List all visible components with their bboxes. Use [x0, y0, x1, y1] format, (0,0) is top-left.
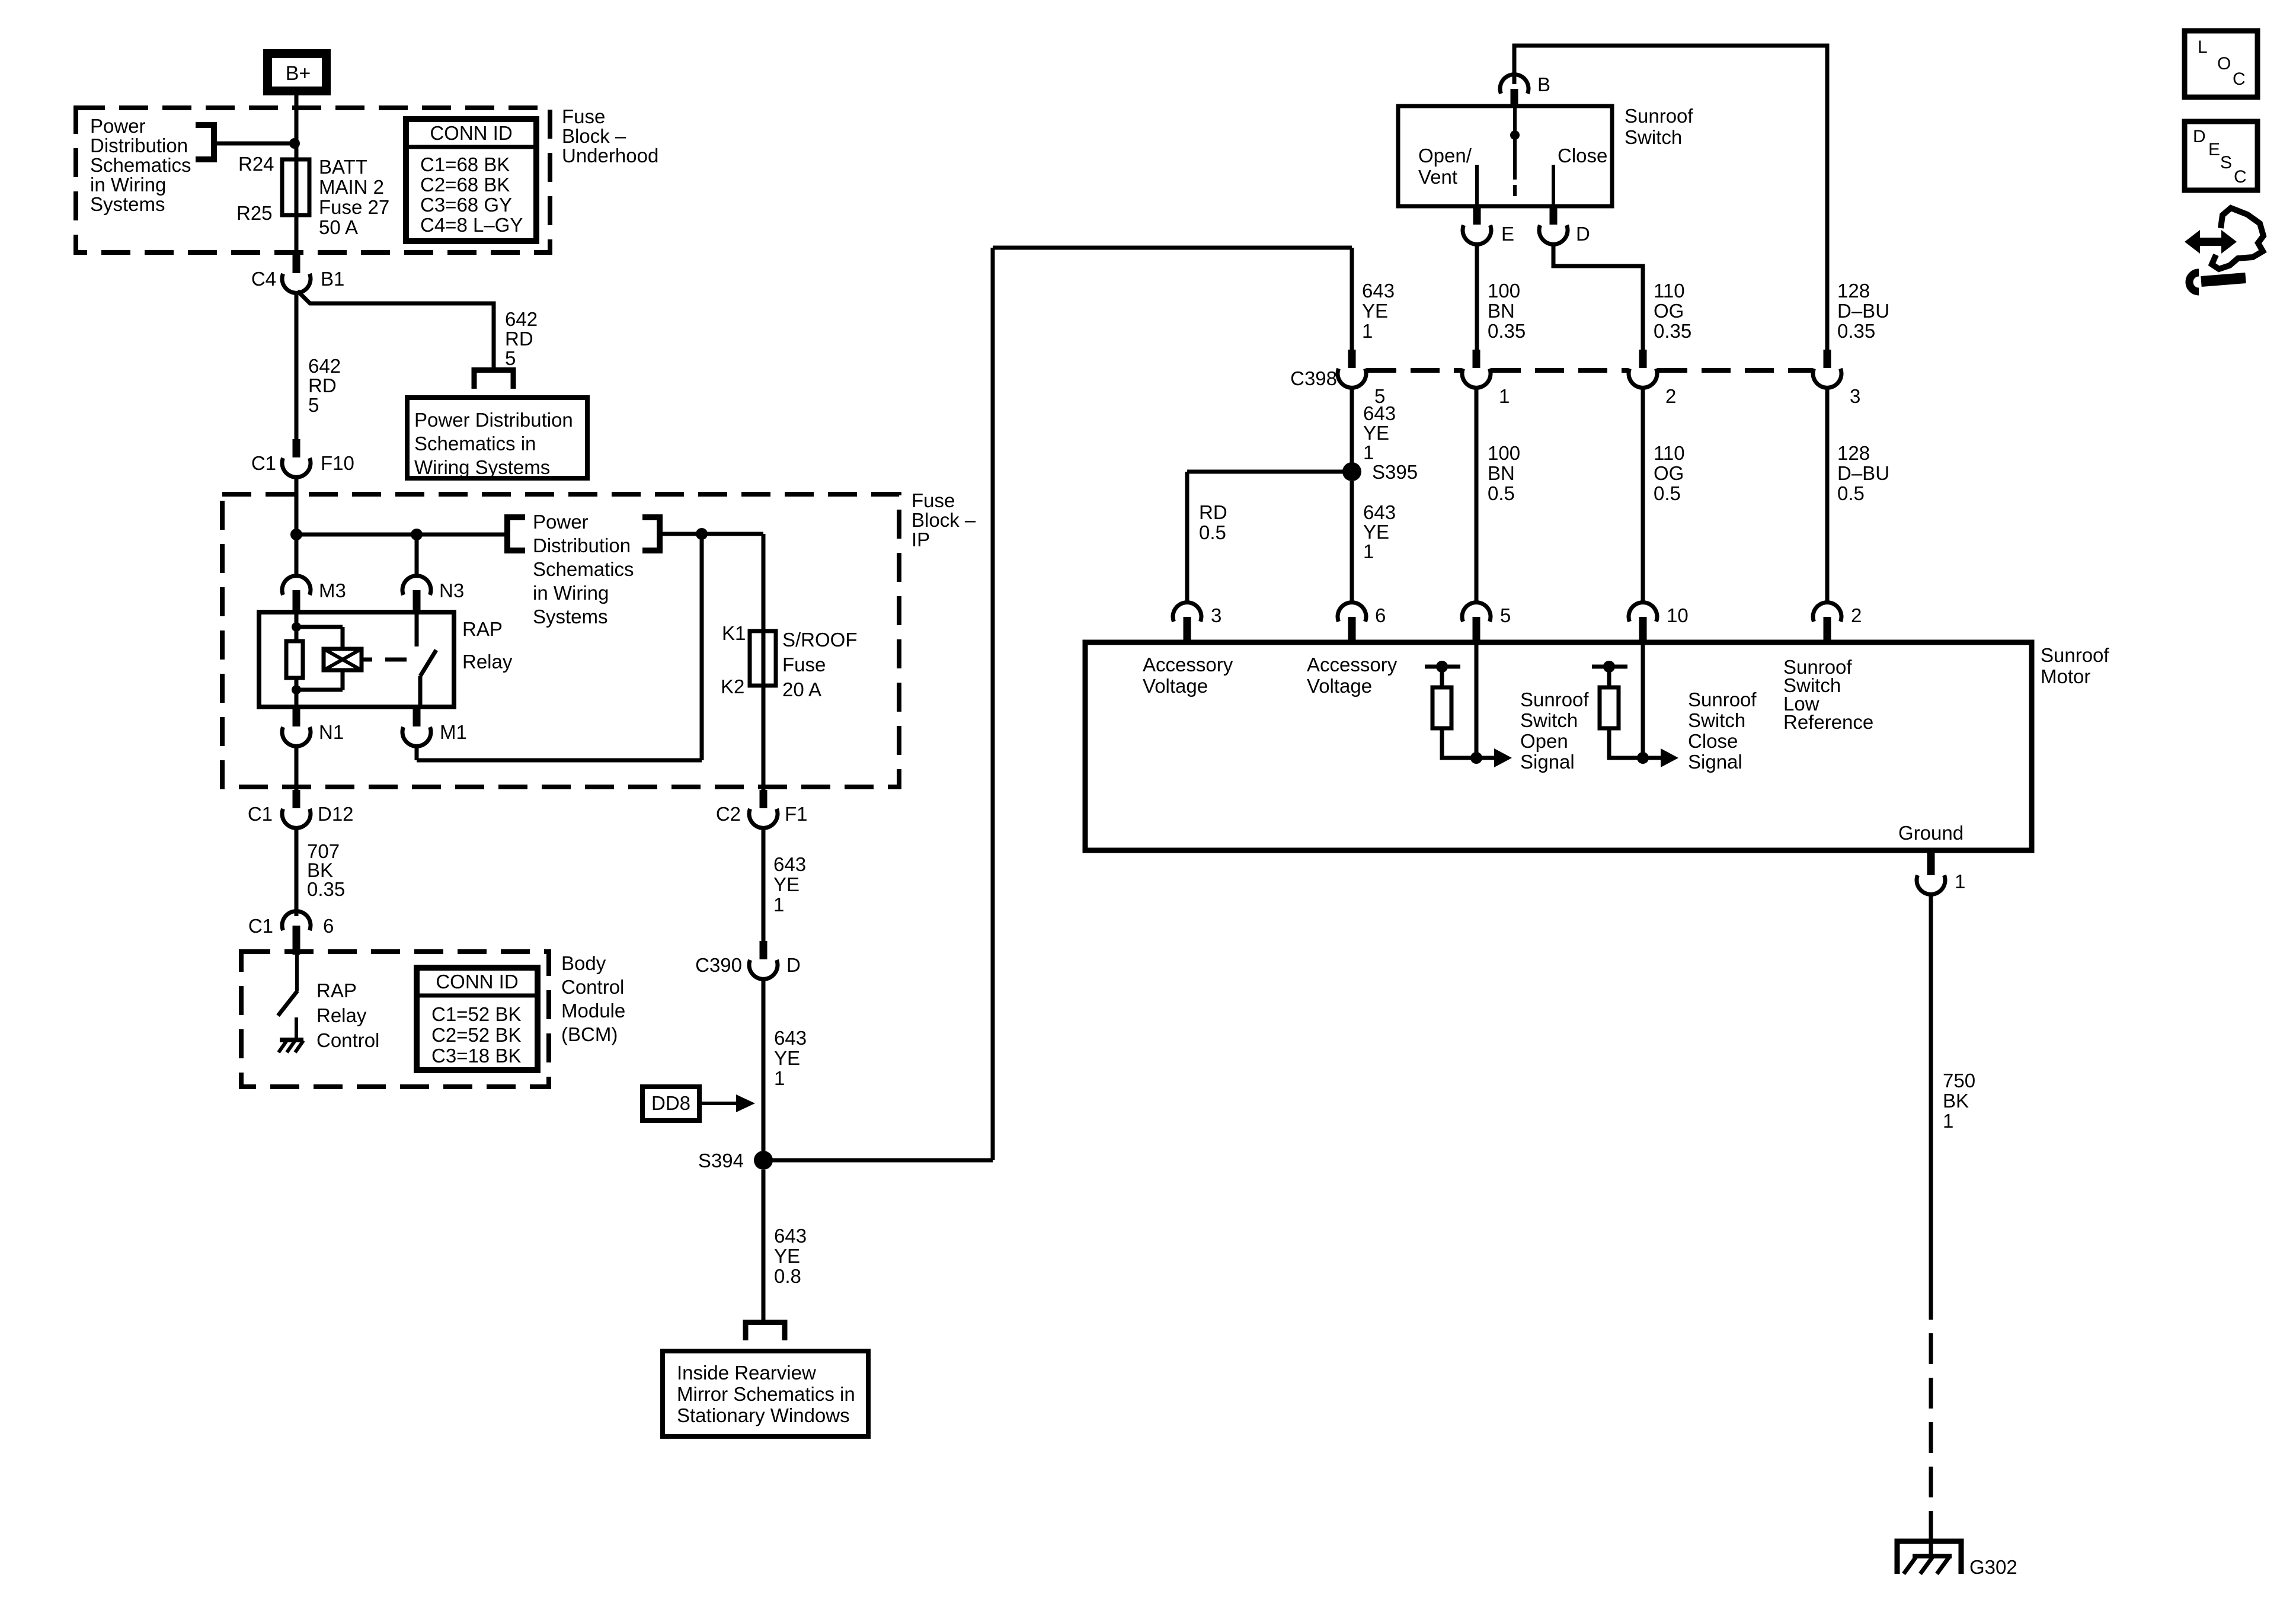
svg-text:2: 2: [1851, 604, 1862, 626]
label 642 RD 5 (branch): [505, 308, 538, 369]
label 707 BK 0.35: [307, 840, 345, 900]
wire branch from B1 to receptacle: [298, 291, 494, 369]
wire 750 BK 1 solid: [1929, 893, 1933, 1289]
svg-text:OG: OG: [1654, 462, 1684, 484]
svg-text:1: 1: [774, 1067, 785, 1089]
table CONN ID BCM: [417, 968, 538, 1070]
label Fuse Block - IP: [912, 489, 976, 550]
svg-text:0.35: 0.35: [1488, 320, 1526, 342]
wire pin D inside switch: [1552, 165, 1555, 206]
wire close signal internal: [1641, 642, 1645, 758]
label RD 0.5: [1199, 501, 1227, 543]
connector motor pin 6: [1338, 603, 1386, 642]
svg-text:Switch: Switch: [1520, 709, 1578, 731]
node junction at B+ feed: [289, 138, 300, 149]
label S/ROOF Fuse 20 A: [782, 629, 858, 700]
label R25: [236, 202, 273, 224]
body control module dashed outline: [241, 952, 549, 1087]
wire N3 drop: [415, 534, 419, 576]
svg-text:E: E: [2208, 140, 2220, 159]
svg-text:CONN ID: CONN ID: [436, 971, 518, 993]
svg-text:C2=68 BK: C2=68 BK: [420, 174, 510, 196]
svg-text:Schematics: Schematics: [90, 154, 191, 176]
svg-text:110: 110: [1654, 442, 1685, 464]
svg-text:Sunroof: Sunroof: [2041, 644, 2109, 666]
label R24: [238, 153, 274, 175]
svg-text:Voltage: Voltage: [1143, 675, 1208, 697]
svg-text:643: 643: [774, 1027, 807, 1049]
svg-text:S/ROOF: S/ROOF: [782, 629, 858, 651]
label Sunroof Switch: [1625, 105, 1693, 148]
connector motor pin 1 ground: [1917, 850, 1965, 894]
label Sunroof Switch Low Reference: [1783, 656, 1873, 733]
icon service arrows and wrench: [2185, 208, 2263, 292]
wire coil actuating dash link: [362, 658, 407, 662]
svg-text:D12: D12: [318, 803, 354, 825]
svg-text:RD: RD: [1199, 501, 1227, 523]
connector DD8 reference box: [642, 1087, 699, 1121]
fuse S/ROOF 20A: [750, 631, 776, 686]
svg-text:643: 643: [774, 1225, 807, 1247]
svg-text:Schematics: Schematics: [533, 558, 634, 580]
svg-text:RAP: RAP: [462, 618, 503, 640]
svg-text:0.5: 0.5: [1199, 521, 1226, 543]
svg-text:DD8: DD8: [651, 1092, 690, 1114]
svg-text:O: O: [2217, 54, 2231, 73]
connector C4 / B1: [251, 255, 345, 293]
connector M1: [402, 708, 467, 746]
connector E: [1463, 206, 1514, 245]
svg-text:G302: G302: [1969, 1556, 2017, 1578]
connector C398 pin 5: [1338, 350, 1385, 407]
svg-text:Block –: Block –: [912, 509, 976, 531]
svg-text:MAIN 2: MAIN 2: [319, 176, 384, 198]
svg-text:0.35: 0.35: [1837, 320, 1875, 342]
node open signal junction: [1470, 752, 1482, 764]
label Open/Vent: [1418, 145, 1472, 188]
wire M3 drop: [295, 534, 299, 576]
svg-text:1: 1: [1363, 540, 1374, 562]
arrow close signal: [1643, 748, 1678, 767]
svg-text:Inside Rearview: Inside Rearview: [677, 1362, 816, 1384]
connector motor pin 3: [1173, 603, 1221, 642]
relay RAP outline: [259, 612, 454, 707]
connector C390 / D: [695, 941, 801, 979]
box Power Distribution Schematics in Wiring Systems: [407, 398, 587, 478]
svg-text:OG: OG: [1654, 300, 1684, 322]
svg-text:Body: Body: [561, 952, 606, 974]
svg-text:Schematics in: Schematics in: [414, 433, 536, 454]
wire open signal internal: [1475, 642, 1479, 758]
wire 707 BK: [295, 827, 299, 903]
wire B+ to fuse: [295, 95, 299, 159]
svg-text:R24: R24: [238, 153, 274, 175]
svg-text:CONN ID: CONN ID: [430, 122, 512, 144]
sunroof switch outline: [1398, 106, 1612, 206]
svg-text:Power: Power: [90, 115, 146, 137]
label 642 RD 5 (main): [308, 355, 341, 416]
svg-text:0.8: 0.8: [774, 1265, 801, 1287]
sunroof motor outline: [1085, 642, 2032, 850]
svg-text:1: 1: [1955, 870, 1965, 892]
svg-text:Wiring Systems: Wiring Systems: [414, 456, 550, 478]
splice S395: [1342, 461, 1418, 483]
svg-text:YE: YE: [773, 873, 800, 895]
svg-text:Power: Power: [533, 511, 589, 533]
label 100 BN 0.5: [1488, 442, 1520, 504]
connector C1 / 6: [248, 911, 334, 955]
svg-text:Sunroof: Sunroof: [1520, 689, 1589, 710]
box Inside Rearview Mirror Schematics: [663, 1351, 868, 1436]
svg-text:F10: F10: [321, 452, 354, 474]
switch RAP relay control blade: [278, 991, 298, 1016]
svg-text:Distribution: Distribution: [90, 135, 188, 156]
receptacle to mirror schematics: [746, 1323, 785, 1341]
node junction bus at main feed: [290, 529, 302, 540]
svg-text:S395: S395: [1372, 461, 1418, 483]
svg-text:RD: RD: [505, 328, 533, 350]
svg-text:Control: Control: [561, 976, 624, 998]
svg-text:C1=68 BK: C1=68 BK: [420, 153, 510, 175]
label 110 OG 0.35: [1654, 280, 1691, 342]
connector motor pin 10: [1629, 603, 1689, 642]
fuse block underhood dashed outline: [76, 108, 550, 252]
svg-text:1: 1: [1363, 441, 1374, 463]
power symbol B+ battery feed: [268, 54, 327, 91]
connector motor pin 2: [1813, 603, 1862, 642]
wire S394 branch right: [763, 1158, 993, 1163]
svg-text:Fuse: Fuse: [782, 654, 826, 676]
svg-text:C3=68 GY: C3=68 GY: [420, 194, 512, 216]
connector N3: [402, 576, 464, 612]
label Ground: [1898, 822, 1964, 844]
switch relay contact blade: [420, 650, 436, 707]
wire bracket to S/ROOF fuse: [660, 532, 763, 536]
off-page bracket right (power distribution IP): [642, 517, 660, 550]
label 643 YE 0.8: [774, 1225, 807, 1287]
svg-text:100: 100: [1488, 442, 1520, 464]
svg-text:Motor: Motor: [2041, 665, 2090, 687]
svg-text:Distribution: Distribution: [533, 534, 631, 556]
svg-text:C398: C398: [1290, 367, 1337, 389]
wire N1 to C1 D12: [295, 745, 299, 791]
connector C398 pin 1: [1462, 350, 1510, 407]
svg-text:0.35: 0.35: [307, 878, 345, 900]
svg-text:YE: YE: [1363, 422, 1389, 444]
svg-text:6: 6: [323, 915, 334, 937]
svg-text:Power Distribution: Power Distribution: [414, 409, 573, 431]
svg-text:D–BU: D–BU: [1837, 462, 1889, 484]
connector M3: [282, 576, 346, 612]
wire fuse to connector C4: [295, 215, 299, 255]
svg-text:YE: YE: [1363, 521, 1389, 543]
svg-text:C1: C1: [248, 803, 273, 825]
connector C1 / F10: [251, 439, 354, 477]
svg-text:100: 100: [1488, 280, 1520, 302]
label Body Control Module (BCM): [561, 952, 625, 1045]
svg-text:Open: Open: [1520, 730, 1568, 752]
wire 128 D-BU 0.5: [1825, 386, 1830, 601]
label 128 D-BU 0.35: [1837, 280, 1889, 342]
ground chassis symbol (RAP relay control): [279, 1040, 303, 1052]
wire BCM input: [295, 955, 299, 991]
svg-text:S394: S394: [698, 1150, 744, 1172]
svg-text:BN: BN: [1488, 462, 1515, 484]
switch common contact: [1510, 106, 1520, 196]
svg-text:1: 1: [1499, 385, 1510, 407]
svg-text:B1: B1: [321, 268, 344, 290]
svg-text:Vent: Vent: [1418, 166, 1457, 188]
svg-text:2: 2: [1665, 385, 1676, 407]
wire C398 harness dashed: [1367, 368, 1812, 373]
wire D12 to C1 6: [295, 827, 299, 916]
svg-text:C4=8 L–GY: C4=8 L–GY: [420, 214, 523, 236]
icon LOC reference box: [2185, 31, 2257, 97]
svg-text:0.5: 0.5: [1837, 482, 1865, 504]
node relay top junction: [292, 622, 301, 632]
svg-text:Module: Module: [561, 1000, 625, 1022]
svg-text:643: 643: [773, 853, 806, 875]
svg-text:C4: C4: [251, 268, 276, 290]
svg-text:F1: F1: [785, 803, 808, 825]
wire branch to reference bracket: [217, 142, 296, 146]
svg-text:N3: N3: [439, 580, 464, 601]
ground G302 symbol: [1897, 1541, 1961, 1574]
wire top loop B to low reference: [1514, 46, 1827, 351]
svg-text:C2=52 BK: C2=52 BK: [431, 1024, 521, 1046]
svg-text:0.5: 0.5: [1488, 482, 1515, 504]
svg-text:Stationary Windows: Stationary Windows: [677, 1404, 850, 1426]
svg-text:128: 128: [1837, 442, 1870, 464]
svg-text:(BCM): (BCM): [561, 1023, 618, 1045]
wire K2 to C2 F1: [762, 686, 766, 791]
wire S395 branch to pin 3: [1187, 472, 1352, 601]
wire 750 BK dashed to ground: [1929, 1289, 1933, 1541]
svg-text:0.35: 0.35: [1654, 320, 1691, 342]
wire coil branch: [296, 627, 343, 690]
svg-text:M3: M3: [319, 580, 346, 601]
wire 643 YE 1 S395 to motor: [1350, 481, 1354, 601]
wire 643 YE 0.8 to mirror reference: [762, 1170, 766, 1320]
node relay bottom junction: [292, 685, 301, 694]
svg-text:Sunroof: Sunroof: [1688, 689, 1757, 710]
svg-text:D–BU: D–BU: [1837, 300, 1889, 322]
table CONN ID underhood: [406, 119, 536, 241]
receptacle into power distribution reference: [474, 370, 513, 389]
label BATT MAIN 2 Fuse 27 50 A: [319, 156, 389, 238]
svg-text:1: 1: [1362, 320, 1373, 342]
svg-text:C1=52 BK: C1=52 BK: [431, 1003, 521, 1025]
label K1: [722, 622, 746, 644]
svg-text:S: S: [2220, 153, 2232, 172]
wire riser to sunroof switch feed: [991, 248, 995, 1160]
wire F1 to C390: [762, 827, 766, 942]
svg-text:Signal: Signal: [1688, 751, 1742, 773]
label Accessory Voltage pin3: [1143, 654, 1233, 697]
svg-text:YE: YE: [774, 1047, 800, 1069]
svg-text:642: 642: [308, 355, 341, 377]
svg-text:Block –: Block –: [562, 125, 626, 147]
svg-text:C1: C1: [248, 915, 273, 937]
svg-text:YE: YE: [774, 1245, 800, 1267]
svg-text:K1: K1: [722, 622, 746, 644]
wire relay coil feed: [295, 612, 299, 641]
svg-text:B+: B+: [286, 62, 311, 85]
label 128 D-BU 0.5: [1837, 442, 1889, 504]
svg-text:Sunroof: Sunroof: [1625, 105, 1693, 127]
wire resistor to bottom node: [295, 678, 299, 707]
svg-text:642: 642: [505, 308, 538, 330]
resistor relay internal: [286, 641, 303, 678]
wire relay contact fixed: [415, 612, 419, 646]
fuse BATT MAIN 2 Fuse 27 50A: [282, 159, 309, 215]
svg-text:Systems: Systems: [90, 193, 165, 215]
svg-text:C1: C1: [251, 452, 276, 474]
svg-text:Relay: Relay: [462, 651, 513, 673]
svg-text:0.5: 0.5: [1654, 482, 1681, 504]
resistor close signal pullup: [1592, 661, 1643, 758]
connector D: [1539, 206, 1590, 245]
svg-text:Voltage: Voltage: [1307, 675, 1372, 697]
label K2: [721, 676, 744, 697]
label 100 BN 0.35: [1488, 280, 1526, 342]
svg-text:Fuse 27: Fuse 27: [319, 196, 389, 218]
label 110 OG 0.5: [1654, 442, 1685, 504]
connector B sunroof switch: [1500, 73, 1550, 106]
svg-text:Fuse: Fuse: [912, 489, 955, 511]
wire pin E inside switch: [1475, 165, 1479, 206]
svg-text:RD: RD: [308, 375, 337, 396]
svg-text:6: 6: [1375, 604, 1386, 626]
svg-text:Ground: Ground: [1898, 822, 1964, 844]
svg-text:IP: IP: [912, 529, 930, 550]
svg-text:D: D: [2193, 127, 2206, 146]
svg-text:3: 3: [1850, 385, 1860, 407]
svg-text:C: C: [2233, 69, 2246, 89]
label RAP Relay Control: [316, 980, 379, 1051]
svg-text:3: 3: [1211, 604, 1221, 626]
wire M1 riser: [417, 534, 702, 760]
svg-text:643: 643: [1363, 402, 1396, 424]
icon DESC reference box: [2185, 121, 2257, 190]
connector C1 / D12: [248, 790, 354, 828]
node junction bus at relay contact: [411, 529, 423, 540]
svg-text:10: 10: [1667, 604, 1689, 626]
svg-text:Mirror Schematics in: Mirror Schematics in: [677, 1383, 855, 1405]
svg-text:1: 1: [773, 894, 784, 916]
svg-text:in Wiring: in Wiring: [533, 582, 609, 604]
node close signal junction: [1637, 752, 1649, 764]
svg-text:M1: M1: [440, 721, 467, 743]
wire IP bus: [296, 533, 504, 537]
label 750 BK 1: [1943, 1070, 1975, 1132]
connector C2 / F1: [716, 790, 808, 828]
wire 642 RD 5 main: [295, 292, 299, 440]
svg-text:1: 1: [1943, 1110, 1953, 1132]
svg-text:Accessory: Accessory: [1307, 654, 1398, 676]
off-page bracket (power distribution): [196, 125, 214, 159]
svg-text:C390: C390: [695, 954, 742, 976]
svg-text:Accessory: Accessory: [1143, 654, 1233, 676]
wire 100 BN 0.5: [1475, 386, 1479, 601]
svg-text:5: 5: [1500, 604, 1511, 626]
connector C398 pin 2: [1629, 350, 1676, 407]
svg-text:Systems: Systems: [533, 606, 608, 628]
label 643 YE 1 (riser): [1362, 280, 1395, 342]
svg-text:BATT: BATT: [319, 156, 367, 178]
svg-text:K2: K2: [721, 676, 744, 697]
arrow DD8 to wire: [699, 1094, 755, 1112]
svg-text:Switch: Switch: [1688, 709, 1745, 731]
svg-text:Close: Close: [1558, 145, 1607, 167]
label Fuse Block - Underhood: [562, 105, 658, 167]
svg-text:Underhood: Underhood: [562, 145, 658, 167]
svg-text:750: 750: [1943, 1070, 1975, 1092]
svg-text:Open/: Open/: [1418, 145, 1472, 167]
svg-text:D: D: [786, 954, 801, 976]
svg-text:R25: R25: [236, 202, 273, 224]
svg-text:50 A: 50 A: [319, 216, 358, 238]
svg-text:D: D: [1576, 223, 1590, 245]
label Close: [1558, 145, 1607, 167]
svg-text:5: 5: [308, 394, 319, 416]
arrow open signal: [1476, 748, 1512, 767]
svg-text:C3=18 BK: C3=18 BK: [431, 1045, 521, 1067]
label 643 YE 1 (above S395): [1363, 402, 1396, 463]
svg-text:YE: YE: [1362, 300, 1388, 322]
wire 643 YE 1 (C390 to S394): [762, 978, 766, 1151]
resistor open signal pullup: [1425, 661, 1476, 758]
label C398: [1290, 367, 1337, 389]
svg-text:643: 643: [1363, 501, 1396, 523]
label Accessory Voltage pin6: [1307, 654, 1398, 697]
wire F10 into IP fuse block: [295, 476, 299, 534]
svg-text:N1: N1: [319, 721, 344, 743]
svg-text:Switch: Switch: [1625, 126, 1682, 148]
label Sunroof Switch Close Signal: [1688, 689, 1757, 773]
wire to ground stub: [295, 1017, 298, 1039]
label Sunroof Motor: [2041, 644, 2109, 687]
svg-text:Signal: Signal: [1520, 751, 1575, 773]
splice S394: [698, 1150, 773, 1172]
fuse block IP dashed outline: [222, 494, 899, 787]
coil RAP relay: [324, 649, 362, 670]
svg-text:BN: BN: [1488, 300, 1515, 322]
svg-text:BK: BK: [1943, 1090, 1969, 1112]
label G302: [1969, 1556, 2017, 1578]
connector N1: [282, 708, 344, 746]
svg-text:5: 5: [505, 347, 516, 369]
svg-text:Relay: Relay: [316, 1004, 367, 1026]
svg-text:643: 643: [1362, 280, 1395, 302]
connector motor pin 5: [1462, 603, 1511, 642]
svg-text:RAP: RAP: [316, 980, 357, 1001]
wire down to fuse K1: [762, 534, 766, 631]
label Power Distribution Schematics in Wiring Systems (underhood): [90, 115, 191, 215]
node junction M1 feed: [696, 528, 708, 540]
svg-text:C: C: [2234, 167, 2247, 187]
svg-text:L: L: [2198, 37, 2208, 57]
off-page bracket left (power distribution IP): [507, 517, 525, 550]
wire 643 YE 1 to S395: [1350, 386, 1354, 463]
label 643 YE 1 (C390 below): [774, 1027, 807, 1089]
wire top feed to C398 pin 5: [993, 248, 1352, 350]
svg-text:128: 128: [1837, 280, 1870, 302]
svg-text:E: E: [1501, 223, 1514, 245]
svg-text:Control: Control: [316, 1029, 379, 1051]
svg-text:Close: Close: [1688, 730, 1738, 752]
wire 110 OG 0.35: [1553, 243, 1643, 350]
